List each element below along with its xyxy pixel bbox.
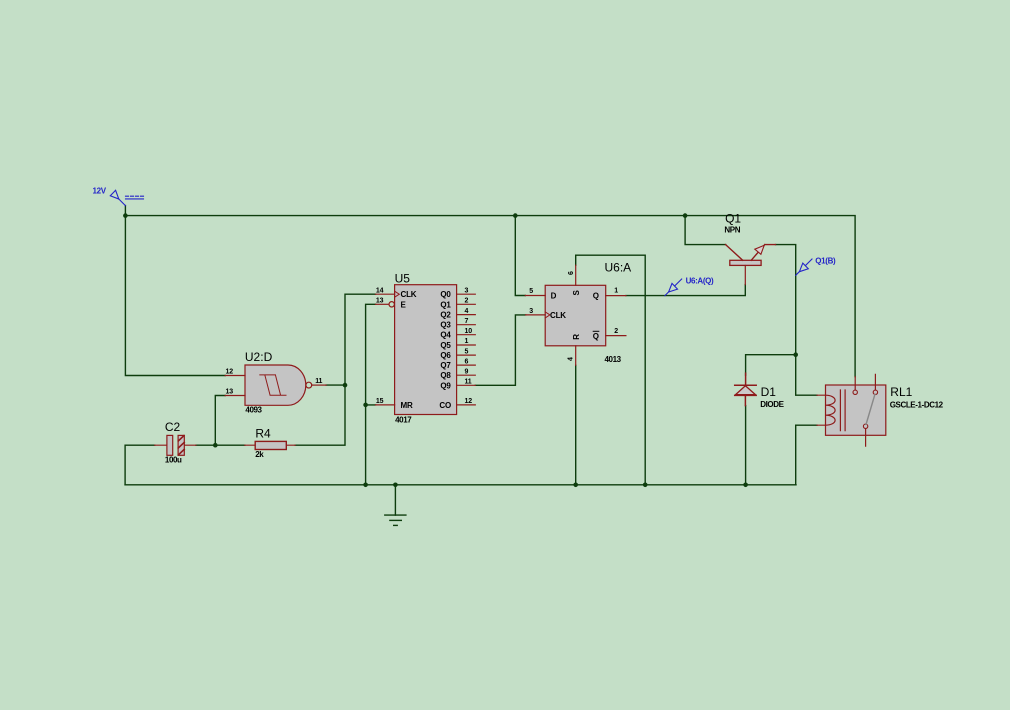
svg-text:5: 5 (529, 288, 533, 295)
capacitor C2 (155, 435, 196, 455)
svg-text:15: 15 (376, 398, 384, 405)
transistor Q1 NPN (726, 245, 776, 285)
junction ground rail / E net (363, 483, 368, 488)
junction emitter D1 coil node (793, 352, 798, 357)
op-amp U2:D gate body (4093 NAND schmitt) (245, 365, 312, 405)
junction C2 R4 pin13 node (213, 443, 218, 448)
junction ground rail / ground symbol (393, 483, 398, 488)
svg-text:CLK: CLK (550, 311, 566, 320)
wire node to D1 cathode (746, 355, 796, 376)
svg-text:10: 10 (465, 328, 473, 335)
svg-text:Q3: Q3 (440, 321, 451, 330)
svg-text:Q: Q (593, 332, 599, 341)
svg-text:12: 12 (465, 398, 473, 405)
wire U6 Q to Q1 base (626, 285, 745, 296)
wire rail to Q1 collector (685, 216, 726, 245)
pin name Q bar (593, 331, 599, 341)
svg-text:14: 14 (376, 287, 384, 294)
svg-text:D: D (551, 291, 557, 300)
svg-text:NPN: NPN (724, 226, 740, 235)
svg-text:MR: MR (401, 401, 413, 410)
svg-text:Q: Q (593, 292, 599, 301)
svg-text:3: 3 (529, 308, 533, 315)
wire U6 S to ground rail (576, 255, 646, 485)
wire relay coil bottom to ground rail (796, 425, 817, 485)
svg-text:4093: 4093 (245, 406, 262, 415)
svg-text:12V: 12V (93, 186, 107, 195)
U2 pin 13 (225, 395, 245, 397)
svg-text:4017: 4017 (395, 416, 412, 425)
wire top +12V rail (125, 206, 855, 377)
svg-text:Q0: Q0 (440, 290, 451, 299)
U2 pin 12 (225, 375, 245, 377)
svg-text:2: 2 (465, 298, 469, 305)
svg-text:Q9: Q9 (440, 381, 451, 390)
diode D1 (735, 373, 757, 405)
wire bottom ground rail (125, 484, 796, 486)
svg-text:100u: 100u (165, 455, 182, 464)
svg-text:12: 12 (226, 368, 234, 375)
svg-text:11: 11 (465, 379, 472, 386)
wire rail to U2 pin 12 (125, 216, 225, 376)
svg-text:Q8: Q8 (440, 371, 451, 380)
power terminal 12V (110, 190, 144, 205)
svg-text:CO: CO (439, 401, 451, 410)
svg-text:9: 9 (465, 368, 469, 375)
wire gate output node to R4 right and U5 CLK (295, 294, 375, 445)
svg-text:RL1: RL1 (890, 385, 912, 399)
junction rail / U6 D (513, 213, 518, 218)
svg-text:R: R (572, 334, 581, 340)
svg-text:Q7: Q7 (440, 361, 451, 370)
svg-text:11: 11 (315, 378, 322, 385)
svg-text:U2:D: U2:D (245, 350, 273, 364)
svg-text:13: 13 (376, 298, 384, 305)
svg-text:Q2: Q2 (440, 311, 451, 320)
svg-text:1: 1 (614, 288, 618, 295)
svg-text:D1: D1 (761, 385, 777, 399)
svg-text:Q6: Q6 (440, 351, 451, 360)
wire U6 R to ground rail (575, 365, 577, 485)
svg-text:1: 1 (465, 338, 469, 345)
svg-text:R4: R4 (255, 427, 271, 441)
svg-text:13: 13 (226, 388, 234, 395)
svg-text:E: E (401, 300, 407, 309)
svg-text:U6:A(Q): U6:A(Q) (686, 277, 714, 286)
junction ground rail / U6 R (573, 483, 578, 488)
wire node to relay coil top (796, 355, 817, 396)
svg-text:4013: 4013 (605, 355, 622, 364)
svg-text:U5: U5 (395, 272, 411, 286)
junction ground rail / D1 (743, 483, 748, 488)
svg-text:2k: 2k (255, 450, 264, 459)
svg-text:4: 4 (568, 357, 575, 361)
resistor R4 (245, 441, 295, 449)
svg-text:Q5: Q5 (440, 341, 451, 350)
wire U5 E and MR to ground rail (366, 304, 376, 485)
U2 pin 11 output (312, 384, 326, 386)
wire U5 Q9 to U6 CLK (475, 315, 525, 385)
svg-text:Q1: Q1 (725, 212, 741, 226)
ground (385, 485, 406, 526)
IC U5 4017 counter (376, 285, 476, 415)
svg-text:2: 2 (614, 328, 618, 335)
junction 12V at rail (123, 213, 128, 218)
svg-text:6: 6 (568, 271, 575, 275)
relay RL1 (817, 374, 886, 446)
wire +12V rail to U6 D (515, 216, 525, 296)
junction U5 MR tap (363, 403, 368, 408)
svg-text:5: 5 (465, 348, 469, 355)
junction gate output node (343, 383, 348, 388)
svg-text:Q1: Q1 (440, 300, 451, 309)
svg-text:DIODE: DIODE (760, 400, 784, 409)
svg-text:C2: C2 (165, 420, 181, 434)
svg-text:CLK: CLK (401, 290, 417, 299)
svg-text:U6:A: U6:A (605, 260, 632, 274)
wire D1 anode to ground rail (745, 406, 747, 485)
svg-text:7: 7 (465, 318, 469, 325)
probe Q1(B) (796, 259, 812, 275)
svg-text:Q1(B): Q1(B) (815, 256, 836, 265)
junction ground rail / U6 S (643, 483, 648, 488)
junction rail / Q1 collector (683, 213, 688, 218)
svg-text:S: S (572, 290, 581, 296)
IC U6:A 4013 flip-flop (525, 265, 626, 365)
svg-text:3: 3 (465, 287, 469, 294)
wire U2 pin 13 to C2 node (215, 396, 225, 446)
svg-text:4: 4 (465, 308, 469, 315)
wire C2 left to ground rail (125, 445, 155, 485)
svg-text:Q4: Q4 (440, 331, 451, 340)
svg-text:6: 6 (465, 358, 469, 365)
wire Q1 emitter to node (776, 245, 796, 355)
wire C2 right to R4 left (196, 444, 245, 446)
svg-text:GSCLE-1-DC12: GSCLE-1-DC12 (890, 401, 944, 410)
probe U6:A(Q) (665, 279, 682, 296)
